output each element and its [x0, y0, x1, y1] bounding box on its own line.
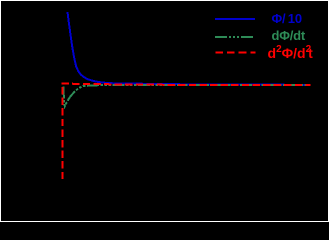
curve Phi/10 (blue solid exponential decay) — [68, 12, 311, 85]
legend label d2Phi/dt2 — [268, 47, 313, 60]
curve d2Phi/dt2 vertical drop at t=0 (red dashed) — [62, 87, 64, 181]
legend line Phi/10 (blue solid) — [215, 18, 255, 20]
legend label dPhi/dt — [272, 29, 306, 42]
legend line dPhi/dt (green dash-dot-dot-dot) — [215, 36, 255, 38]
curve dPhi/dt (green dash-dot-dot-dot): dips to minimum near t=0 then recovers — [63, 85, 310, 106]
curve d2Phi/dt2 horizontal (red dashed) — [62, 84, 311, 85]
legend label Phi/10 — [272, 12, 302, 25]
legend line d2Phi/dt2 (red dashed) — [216, 51, 256, 53]
